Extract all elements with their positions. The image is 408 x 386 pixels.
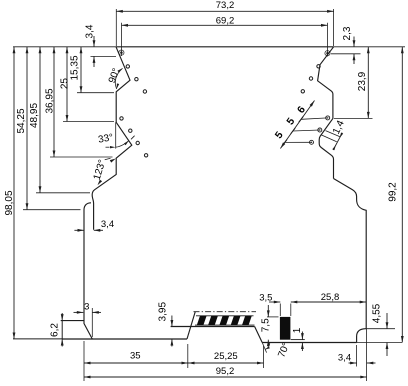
svg-text:23,9: 23,9 <box>357 71 368 91</box>
svg-text:98,05: 98,05 <box>4 190 15 215</box>
svg-text:3,5: 3,5 <box>259 293 272 304</box>
svg-text:25,8: 25,8 <box>321 292 340 303</box>
svg-text:54,25: 54,25 <box>16 108 27 133</box>
svg-text:69,2: 69,2 <box>216 15 235 26</box>
svg-text:15,35: 15,35 <box>70 55 81 80</box>
svg-text:2,3: 2,3 <box>342 26 353 40</box>
svg-text:7,5: 7,5 <box>260 318 271 332</box>
svg-text:3,4: 3,4 <box>101 219 114 230</box>
svg-text:48,95: 48,95 <box>29 103 40 128</box>
svg-text:3,95: 3,95 <box>157 302 168 322</box>
svg-text:3,4: 3,4 <box>85 24 96 38</box>
svg-text:36,95: 36,95 <box>45 88 56 113</box>
svg-text:1: 1 <box>292 327 303 333</box>
svg-text:4,55: 4,55 <box>372 303 383 323</box>
svg-text:99,2: 99,2 <box>388 182 399 202</box>
svg-text:6,2: 6,2 <box>49 323 60 337</box>
svg-text:73,2: 73,2 <box>216 0 235 11</box>
svg-text:25,25: 25,25 <box>214 351 238 362</box>
svg-text:3: 3 <box>84 302 89 313</box>
svg-text:35: 35 <box>130 351 141 362</box>
svg-text:3,4: 3,4 <box>338 353 351 364</box>
svg-text:95,2: 95,2 <box>216 366 235 377</box>
